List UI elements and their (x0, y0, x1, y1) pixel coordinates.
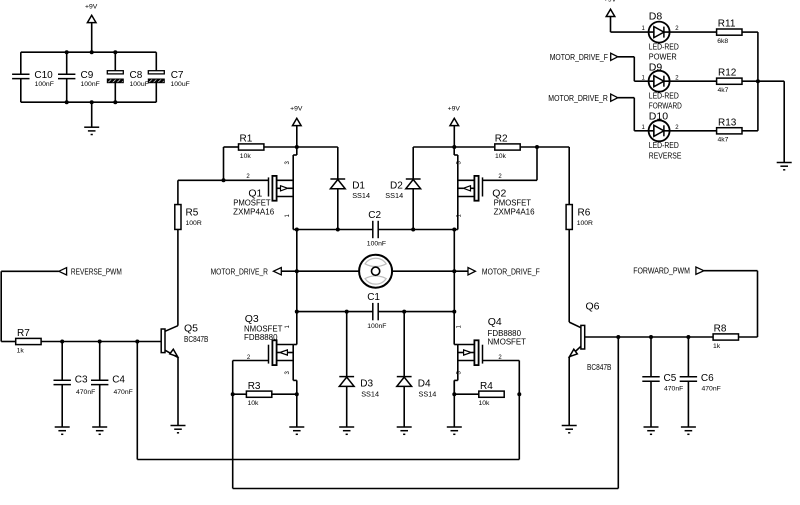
svg-text:C2: C2 (368, 210, 381, 221)
svg-text:100R: 100R (186, 220, 202, 227)
svg-text:PMOSFET: PMOSFET (233, 199, 271, 208)
svg-text:+9V: +9V (290, 105, 303, 112)
pin 3 (Q4 source) (457, 371, 463, 375)
wire R1 left to gate node (224, 147, 239, 180)
net FORWARD_PWM (633, 266, 757, 276)
node junctions cap bank bottom bus (65, 100, 118, 104)
svg-text:C10: C10 (34, 70, 53, 81)
wire +9V to D8 (611, 31, 649, 33)
label Q1 (233, 188, 274, 217)
svg-text:100uF: 100uF (130, 81, 149, 88)
resistor R2 (495, 134, 520, 160)
svg-text:D4: D4 (418, 379, 431, 390)
wire D10 to R13 (670, 130, 717, 132)
ground (Q6) (562, 426, 577, 433)
ground (LED rail) (777, 163, 792, 170)
svg-text:R8: R8 (714, 324, 727, 335)
power +9V (cap bank) (85, 4, 98, 53)
node junctions cap bank top bus (65, 50, 118, 54)
transistor Q4 (454, 312, 482, 395)
resistor R7 (16, 328, 41, 354)
resistor R6 (566, 147, 593, 229)
node Q1 drain junction (295, 228, 299, 232)
ground (D3) (339, 427, 354, 434)
capacitor C9 (58, 52, 100, 102)
svg-text:4k7: 4k7 (718, 87, 729, 94)
svg-text:R13: R13 (718, 117, 737, 128)
svg-text:D2: D2 (390, 180, 403, 191)
node lower bus junctions (295, 310, 457, 314)
resistor R1 (239, 134, 264, 160)
diode D2 (385, 147, 420, 230)
net MOTOR_DRIVE_R (bridge) (211, 266, 297, 276)
wire D8 to R11 (670, 31, 717, 33)
svg-text:R12: R12 (718, 68, 737, 79)
resistor R5 (175, 180, 202, 229)
ground (Q5) (171, 426, 186, 433)
node Q1 gate junction (222, 178, 226, 182)
wire R3 right to Q3 source (273, 393, 297, 395)
wire R6 to Q6 collector (568, 230, 570, 323)
svg-text:1k: 1k (17, 347, 25, 354)
LED D8 (649, 10, 680, 61)
resistor R12 (717, 68, 742, 94)
resistor R4 (479, 381, 505, 407)
ground (cap bank) (84, 127, 99, 134)
svg-text:100nF: 100nF (81, 81, 100, 88)
resistor R8 (713, 324, 739, 350)
svg-text:Q5: Q5 (184, 323, 198, 335)
svg-text:PMOSFET: PMOSFET (494, 199, 532, 208)
wire Q3 gate (233, 361, 269, 395)
pin 2 (D10) (675, 125, 679, 131)
wire motor left (297, 270, 359, 272)
svg-text:1k: 1k (713, 343, 721, 350)
ground (C4) (92, 427, 107, 434)
wire Q3 source to ground (296, 394, 298, 427)
wire R11 to right rail (742, 32, 758, 81)
pin 2 (Q3 gate) (247, 355, 251, 361)
wire Q1 gate (178, 179, 269, 181)
resistor R11 (717, 19, 742, 45)
svg-text:NMOSFET: NMOSFET (488, 338, 527, 347)
capacitor C4 (91, 342, 133, 428)
svg-text:R3: R3 (248, 381, 261, 392)
wire R3 left (233, 393, 246, 395)
svg-text:BC847B: BC847B (587, 363, 611, 372)
LED D9 (649, 61, 682, 110)
LED D10 (649, 111, 682, 161)
svg-text:D1: D1 (352, 180, 365, 191)
node D2 bottom junction (411, 228, 415, 232)
label Q5 (184, 323, 208, 344)
label Q3 (244, 313, 283, 342)
capacitor C1 (297, 292, 455, 330)
svg-text:R1: R1 (240, 134, 253, 145)
wire LED rail to ground (783, 81, 785, 162)
node Q3 source junction (295, 392, 299, 396)
node D1 bottom junction (336, 228, 340, 232)
svg-text:FORWARD_PWM: FORWARD_PWM (633, 266, 690, 276)
diode D4 (397, 312, 437, 427)
pin 1 (Q4 drain) (457, 325, 463, 329)
svg-text:+9V: +9V (448, 105, 461, 112)
label Q4 (488, 316, 527, 347)
diode D3 (339, 312, 379, 427)
wire D9 to R12 (670, 80, 717, 82)
wire bottom bus of cap bank (21, 101, 157, 103)
net MOTOR_DRIVE_R (LED) (548, 93, 634, 103)
capacitor C8 (107, 52, 148, 102)
svg-text:SS14: SS14 (419, 389, 437, 398)
svg-text:ZXMP4A16: ZXMP4A16 (233, 207, 274, 216)
svg-text:ZXMP4A16: ZXMP4A16 (494, 207, 535, 216)
pin 1 (D10) (642, 125, 646, 131)
svg-text:R4: R4 (480, 381, 493, 392)
svg-text:D9: D9 (649, 61, 663, 73)
net MOTOR_DRIVE_F (bridge) (454, 266, 540, 276)
svg-text:+9V: +9V (85, 4, 98, 11)
transistor Q1 (269, 147, 297, 230)
svg-text:REVERSE: REVERSE (649, 151, 682, 160)
svg-text:C6: C6 (701, 373, 714, 384)
wire reverse node to Q4 gate (bottom link 1) (137, 342, 519, 460)
svg-text:C1: C1 (367, 292, 380, 303)
wire FORWARD_PWM down to R8 (739, 271, 758, 337)
wire R7 to Q5 base (41, 341, 161, 343)
pin 3 (Q3 source) (285, 371, 291, 375)
wire D2 top to R2 (+9V bus) (413, 146, 494, 148)
svg-text:C8: C8 (130, 70, 143, 81)
wire R8 to Q6 base (585, 336, 713, 338)
pin 2 (D8) (675, 26, 679, 32)
svg-text:Q4: Q4 (488, 316, 502, 328)
node R4 right junction (517, 392, 521, 396)
svg-text:10k: 10k (248, 400, 260, 407)
node Q2 drain junction (452, 228, 456, 232)
wire Q2 gate (483, 147, 538, 180)
wire R1 to D1 top (+9V bus) (264, 146, 338, 148)
svg-text:BC847B: BC847B (184, 335, 208, 344)
wire REVERSE_PWM down to R7 (1, 271, 16, 341)
pin 1 (D9) (642, 75, 646, 81)
svg-text:100nF: 100nF (367, 323, 386, 330)
svg-text:470nF: 470nF (76, 389, 95, 396)
ground (Q3) (289, 427, 304, 434)
svg-text:R6: R6 (578, 208, 591, 219)
ground (Q4) (447, 427, 462, 434)
power +9V (LED) (604, 0, 617, 32)
svg-text:C4: C4 (112, 375, 125, 386)
wire Q4 source to ground (453, 380, 455, 427)
transistor Q2 (454, 147, 482, 230)
svg-text:R11: R11 (718, 19, 736, 30)
svg-text:SS14: SS14 (361, 389, 379, 398)
pin 2 (D9) (675, 75, 679, 81)
capacitor C7 (148, 52, 189, 102)
label Q2 (492, 188, 534, 217)
svg-text:LED-RED: LED-RED (649, 42, 679, 51)
ground (C3) (55, 427, 70, 434)
svg-text:100nF: 100nF (35, 81, 54, 88)
node R3 left junction (231, 392, 235, 396)
svg-text:NMOSFET: NMOSFET (244, 324, 283, 333)
wire R5 to Q5 collector (177, 230, 179, 326)
svg-text:Q3: Q3 (245, 313, 259, 325)
svg-text:FDB8880: FDB8880 (488, 329, 522, 338)
svg-text:LED-RED: LED-RED (649, 91, 679, 100)
net MOTOR_DRIVE_F (LED) (550, 52, 635, 62)
svg-text:R2: R2 (495, 134, 508, 145)
svg-text:10k: 10k (495, 153, 507, 160)
svg-text:POWER: POWER (649, 53, 677, 62)
svg-text:C7: C7 (171, 70, 184, 81)
svg-text:LED-RED: LED-RED (649, 141, 679, 150)
svg-text:470nF: 470nF (664, 386, 683, 393)
svg-text:4k7: 4k7 (718, 137, 729, 144)
capacitor C10 (12, 52, 54, 102)
svg-text:+9V: +9V (604, 0, 617, 4)
svg-text:FORWARD: FORWARD (649, 102, 682, 111)
capacitor C5 (642, 337, 683, 427)
pin 2 (Q4 gate) (498, 355, 502, 361)
motor M1 (359, 255, 392, 288)
resistor R3 (246, 381, 271, 407)
svg-text:Q6: Q6 (586, 301, 600, 313)
wire R12 to right rail (742, 80, 784, 82)
pin 1 (D8) (642, 26, 646, 32)
wire R2 to R6 top (521, 146, 569, 148)
svg-text:10k: 10k (479, 400, 491, 407)
wire Q5 emitter to ground (177, 357, 179, 425)
resistor R13 (717, 117, 742, 143)
transistor Q3 (269, 312, 297, 395)
capacitor C2 (297, 210, 455, 248)
svg-text:C3: C3 (75, 375, 88, 386)
wire Q6 emitter to ground (568, 357, 570, 426)
transistor Q6 (569, 322, 585, 357)
wire Q4 gate (483, 361, 520, 395)
svg-text:100nF: 100nF (367, 241, 386, 248)
diode D1 (330, 147, 370, 230)
svg-text:D8: D8 (649, 10, 663, 22)
svg-text:D10: D10 (649, 111, 668, 123)
svg-text:MOTOR_DRIVE_F: MOTOR_DRIVE_F (550, 52, 608, 62)
wire motor right (392, 270, 454, 272)
node base bus junctions (left) (60, 340, 139, 344)
node +9V left junction (295, 145, 299, 149)
pin 1 (Q1 drain) (285, 214, 291, 218)
ground (C5) (644, 427, 659, 434)
pin 1 (Q3 drain) (285, 325, 291, 329)
wire Q2 drain to motor node (453, 230, 455, 312)
svg-text:470nF: 470nF (114, 389, 133, 396)
wire R13 to rail junction (742, 81, 758, 131)
node LED rail junction (756, 79, 760, 83)
ground (D4) (397, 427, 412, 434)
transistor Q5 (161, 326, 178, 358)
svg-text:SS14: SS14 (385, 191, 403, 200)
svg-text:FDB8880: FDB8880 (244, 333, 278, 342)
svg-text:MOTOR_DRIVE_R: MOTOR_DRIVE_R (548, 93, 608, 103)
wire cap bank to ground (91, 102, 93, 127)
svg-text:C5: C5 (664, 373, 677, 384)
node Q4 source junction (452, 392, 456, 396)
wire MOTOR_DRIVE_F to D9 (634, 57, 648, 81)
svg-text:D3: D3 (360, 379, 373, 390)
svg-text:6k8: 6k8 (717, 38, 728, 45)
pin 3 (Q1 source) (285, 161, 291, 165)
node Q2 gate top junction (535, 145, 539, 149)
svg-text:100R: 100R (577, 220, 593, 227)
svg-text:MOTOR_DRIVE_F: MOTOR_DRIVE_F (482, 266, 540, 276)
svg-text:10k: 10k (240, 153, 252, 160)
wire forward node to Q3 gate (bottom link 2) (233, 337, 619, 489)
net REVERSE_PWM (1, 266, 122, 276)
wire MOTOR_DRIVE_R to D10 (634, 98, 648, 131)
node motor right junction (452, 269, 456, 273)
pin 2 (Q2 gate) (498, 174, 502, 180)
label Q6 (586, 301, 612, 373)
svg-text:R7: R7 (17, 328, 30, 339)
svg-text:MOTOR_DRIVE_R: MOTOR_DRIVE_R (211, 266, 268, 276)
svg-text:SS14: SS14 (352, 191, 370, 200)
wire R4 left (454, 393, 479, 395)
wire Q1 drain to motor node (296, 230, 298, 312)
pin 3 (Q2 source) (457, 161, 463, 165)
power +9V (left bridge) (290, 105, 303, 147)
pin 1 (Q2 drain) (457, 214, 463, 218)
node +9V right junction (452, 145, 456, 149)
pin 2 (Q1 gate) (246, 174, 250, 180)
svg-text:C9: C9 (81, 70, 94, 81)
svg-text:REVERSE_PWM: REVERSE_PWM (71, 266, 122, 276)
svg-text:470nF: 470nF (702, 386, 721, 393)
capacitor C6 (680, 337, 721, 427)
wire top bus of cap bank (21, 51, 157, 53)
capacitor C3 (54, 342, 96, 428)
node base bus junctions (right) (616, 335, 690, 339)
svg-text:100uF: 100uF (171, 81, 190, 88)
svg-text:R5: R5 (186, 208, 199, 219)
node motor left junction (295, 269, 299, 273)
power +9V (right bridge) (448, 105, 461, 147)
ground (C6) (681, 427, 696, 434)
